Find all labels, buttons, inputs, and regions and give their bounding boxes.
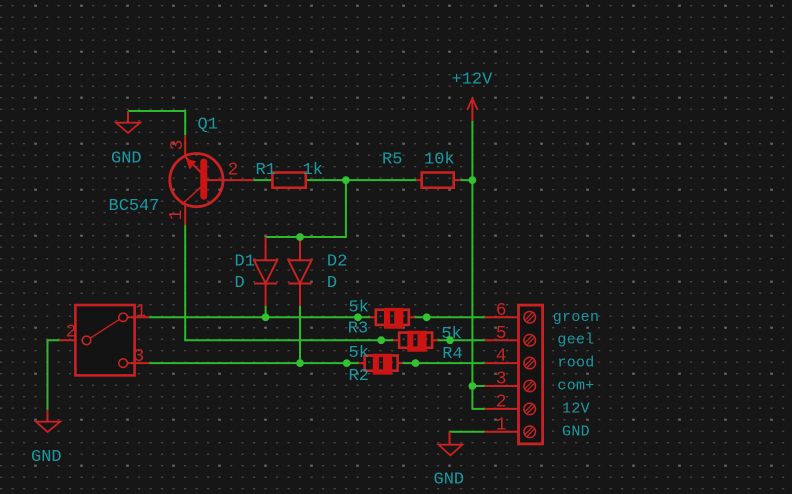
net label geel: [557, 332, 594, 349]
svg-text:GND: GND: [562, 423, 590, 440]
wire D2 cathode to rood row: [299, 306, 301, 363]
diode D2: [288, 237, 347, 306]
svg-text:GND: GND: [31, 448, 62, 467]
svg-text:2: 2: [496, 393, 507, 413]
wire junction R1 down to diodes: [266, 180, 346, 237]
junction D2 cathode: [296, 359, 304, 367]
resistor R1 1k: [256, 161, 323, 188]
terminal screw 1: [524, 426, 536, 438]
pin 6 of connector: [485, 301, 519, 321]
wire com+ stub: [472, 385, 484, 387]
net label GND: [562, 423, 590, 440]
junction R1/R5: [342, 176, 350, 184]
svg-text:D: D: [327, 274, 337, 293]
potentiometer R4 5k: [393, 325, 462, 364]
connector J1 screw terminal: [519, 305, 543, 444]
pin 2 of switch: [60, 323, 77, 343]
junction R5/rail: [469, 176, 477, 184]
wire rood row (switch pin3 to connector pin4): [149, 362, 485, 364]
svg-text:R1: R1: [256, 161, 276, 180]
wire groen row (switch pin1 to connector pin6): [149, 316, 485, 318]
svg-text:5: 5: [496, 324, 507, 344]
svg-text:rood: rood: [557, 355, 594, 372]
power +12V: [452, 71, 494, 122]
terminal screw 5: [524, 334, 536, 346]
wire D1 cathode to groen row: [265, 306, 267, 318]
diode D1: [235, 237, 278, 306]
junction D2 anode: [296, 233, 304, 241]
svg-text:D2: D2: [327, 253, 347, 272]
wire connector pin1 to GND3: [450, 431, 485, 433]
pin 4 of connector: [485, 347, 519, 367]
svg-text:groen: groen: [553, 309, 600, 326]
wire geel row right of R4: [438, 339, 485, 341]
pin 2 of connector: [485, 393, 519, 413]
svg-text:1k: 1k: [303, 161, 323, 180]
svg-text:R4: R4: [442, 345, 462, 364]
svg-text:3: 3: [168, 140, 188, 151]
ground GND3 bottom-middle: [434, 432, 465, 490]
junction R4 left: [377, 336, 385, 344]
junction D1 cathode: [262, 313, 270, 321]
pin 2 of Q1 (base): [207, 160, 253, 180]
junction R2 left: [343, 359, 351, 367]
pin 3 of Q1 (top): [168, 135, 188, 156]
pin 5 of connector: [485, 324, 519, 344]
wire switch pin2 to GND2: [48, 340, 60, 410]
transistor Q1 BC547: [109, 116, 223, 217]
net label groen: [553, 309, 600, 326]
svg-text:1: 1: [167, 209, 187, 220]
svg-text:+12V: +12V: [452, 71, 494, 90]
svg-text:D: D: [235, 274, 245, 293]
svg-text:GND: GND: [434, 471, 465, 490]
svg-text:10k: 10k: [424, 151, 455, 170]
svg-text:Q1: Q1: [198, 116, 218, 135]
svg-text:12V: 12V: [562, 400, 590, 417]
wire GND1 to Q1 collector top: [128, 111, 185, 135]
resistor R5 10k: [382, 151, 460, 188]
svg-text:GND: GND: [111, 150, 142, 169]
svg-text:3: 3: [496, 370, 507, 390]
svg-text:R3: R3: [348, 319, 368, 338]
svg-text:BC547: BC547: [109, 197, 160, 216]
svg-text:R5: R5: [382, 151, 402, 170]
pin 3 of switch: [127, 347, 149, 367]
junction R2 right: [412, 359, 420, 367]
pin 1 of connector: [485, 415, 519, 435]
net label rood: [557, 355, 594, 372]
net label 12V: [562, 400, 590, 417]
wire Q1 emitter down to geel row: [185, 225, 393, 340]
wire base row R1 to R5: [253, 179, 472, 181]
svg-text:2: 2: [228, 160, 239, 180]
junction R3 right: [423, 313, 431, 321]
potentiometer R2 5k: [349, 344, 403, 386]
pin 1 of switch: [127, 302, 149, 322]
svg-text:2: 2: [66, 323, 77, 343]
terminal screw 4: [524, 357, 536, 369]
net label com+: [557, 378, 594, 395]
junction R3 left: [354, 313, 362, 321]
svg-text:4: 4: [496, 347, 507, 367]
ground GND2 below switch: [31, 410, 62, 467]
svg-text:com+: com+: [557, 378, 594, 395]
potentiometer R3 5k: [348, 298, 415, 338]
junction R4 right: [446, 336, 454, 344]
svg-text:5k: 5k: [349, 344, 369, 363]
terminal screw 2: [524, 403, 536, 415]
terminal screw 6: [524, 312, 536, 324]
ground GND1 top-left: [111, 111, 142, 169]
svg-text:geel: geel: [557, 332, 594, 349]
terminal screw 3: [524, 380, 536, 392]
pin 1 of Q1 (bottom): [167, 204, 187, 225]
svg-text:3: 3: [134, 347, 145, 367]
pin 3 of connector: [485, 370, 519, 390]
switch SW1: [75, 305, 134, 375]
svg-text:6: 6: [496, 301, 507, 321]
junction com+: [469, 382, 477, 390]
svg-text:D1: D1: [235, 253, 255, 272]
svg-text:1: 1: [136, 302, 147, 322]
wire +12V rail: [472, 121, 484, 409]
svg-text:1: 1: [496, 415, 507, 435]
svg-text:R2: R2: [349, 367, 369, 386]
